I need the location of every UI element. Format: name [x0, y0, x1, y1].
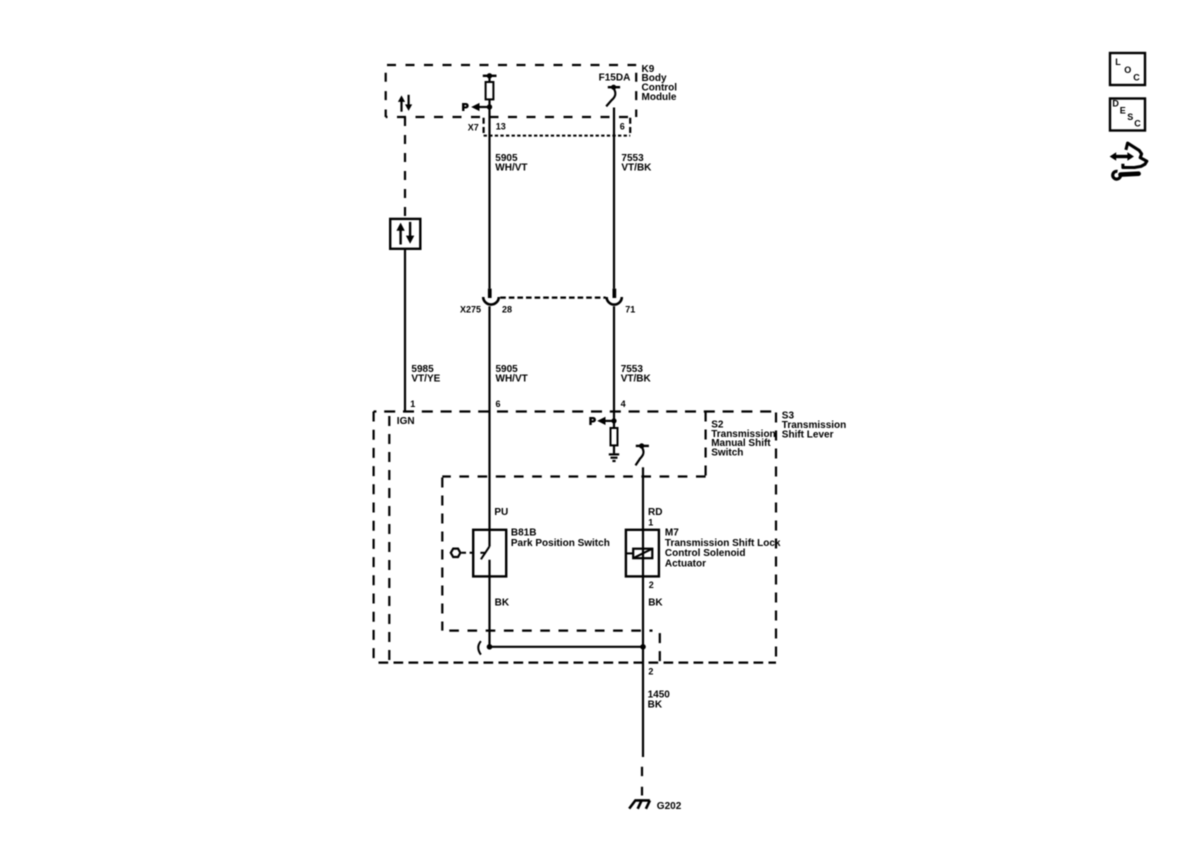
internal supply bar with junction dot (K9)	[483, 73, 497, 82]
resistor inside S2	[611, 421, 618, 454]
wire resistor to junction	[488, 99, 490, 107]
bidirectional serial data arrows inside K9	[398, 95, 412, 112]
label 1450 BK	[648, 689, 671, 710]
M7 solenoid element	[626, 549, 652, 559]
dashed drop from K9 to data link symbol	[404, 117, 406, 219]
M7 Transmission Shift Lock Control Solenoid Actuator box	[626, 530, 659, 577]
B81B Park Position Switch box	[473, 530, 506, 577]
connector X275 left cup	[483, 297, 499, 305]
svg-text:L: L	[1115, 57, 1121, 67]
svg-text:1: 1	[648, 518, 653, 528]
svg-text:VT/YE: VT/YE	[411, 373, 440, 384]
connector X275 right cup	[607, 297, 622, 305]
junction node pin4 (S2)	[611, 418, 616, 423]
svg-text:71: 71	[625, 304, 635, 314]
svg-text:P: P	[589, 416, 596, 427]
wire RD switch to M7	[642, 467, 644, 530]
svg-text:WH/VT: WH/VT	[495, 162, 527, 173]
svg-text:S: S	[1127, 112, 1133, 122]
svg-text:Shift Lever: Shift Lever	[782, 429, 834, 440]
svg-text:G202: G202	[657, 801, 682, 812]
shift lever switch contact (S2)	[636, 443, 649, 465]
svg-text:C: C	[1133, 72, 1140, 82]
svg-text:6: 6	[496, 399, 501, 409]
label 5905 WH/VT	[496, 364, 528, 384]
svg-text:Switch: Switch	[711, 447, 743, 458]
connector X275 right terminal pin	[613, 289, 617, 298]
DESC icon box	[1110, 98, 1145, 130]
splice wire to ground path	[478, 641, 646, 655]
wire through M7	[642, 530, 644, 647]
ground symbol inside S2	[609, 454, 619, 461]
label 7553 VT/BK upper	[621, 153, 652, 173]
ground G202 symbol	[629, 800, 650, 808]
label 7553 VT/BK	[621, 364, 652, 384]
svg-text:D: D	[1112, 98, 1119, 108]
B81B label	[511, 528, 610, 549]
svg-text:RD: RD	[648, 507, 662, 518]
connector X7 dashed bars	[484, 118, 631, 134]
svg-text:X7: X7	[468, 122, 479, 132]
svg-text:BK: BK	[648, 597, 663, 608]
svg-text:6: 6	[620, 122, 625, 132]
B81B switch blade	[480, 547, 489, 560]
fuse F15DA symbol	[606, 85, 620, 107]
svg-text:4: 4	[621, 399, 626, 409]
svg-text:WH/VT: WH/VT	[496, 373, 528, 384]
svg-text:28: 28	[502, 304, 512, 314]
S3 Transmission Shift Lever outer box	[374, 412, 776, 663]
connector X275 left terminal pin	[488, 289, 492, 298]
dashed wire to ground G202	[641, 767, 643, 796]
svg-text:BK: BK	[648, 700, 663, 711]
svg-text:VT/BK: VT/BK	[621, 373, 652, 384]
svg-text:P: P	[462, 102, 469, 113]
svg-text:C: C	[1134, 119, 1141, 129]
svg-text:Actuator: Actuator	[665, 558, 706, 569]
svg-text:VT/BK: VT/BK	[621, 162, 652, 173]
M7 label	[665, 528, 781, 570]
wire 5905 lower segment	[488, 306, 490, 546]
connector X7 dotted line	[484, 135, 631, 137]
S2 Transmission Manual Shift Switch box edges	[389, 412, 705, 663]
K9 label	[642, 64, 678, 103]
serial data symbol box with arrows	[390, 219, 420, 249]
svg-text:Park Position Switch: Park Position Switch	[511, 538, 610, 549]
svg-text:X275: X275	[460, 304, 481, 314]
svg-text:2: 2	[648, 667, 653, 677]
label 5985 VT/YE	[411, 364, 440, 384]
svg-text:13: 13	[496, 122, 506, 132]
mechanical link hexagon	[451, 549, 461, 557]
S2 label	[711, 419, 775, 458]
svg-text:O: O	[1124, 65, 1131, 75]
wire 5905 upper segment	[488, 107, 490, 289]
internal pull-up resistor (K9)	[486, 82, 494, 99]
label 5905 WH/VT upper	[495, 153, 527, 173]
svg-text:1: 1	[410, 399, 415, 409]
svg-text:IGN: IGN	[397, 416, 415, 427]
K9 Body Control Module box	[386, 65, 637, 117]
connector X275 dashed tie line	[500, 297, 606, 299]
S3 label	[782, 411, 846, 441]
svg-text:PU: PU	[494, 507, 508, 518]
node P arrow (K9)	[462, 102, 492, 113]
svg-text:BK: BK	[495, 597, 510, 608]
wire 7553 upper segment	[613, 108, 615, 289]
inner assembly box (B81B / M7) edges	[442, 477, 660, 663]
svg-text:F15DA: F15DA	[599, 72, 631, 83]
svg-text:E: E	[1120, 105, 1126, 115]
diagnostic tool icon	[1110, 143, 1147, 179]
wire 7553 lower segment	[613, 306, 615, 421]
wire 5985 segment	[404, 249, 406, 412]
node P arrow (S2)	[589, 416, 614, 427]
LOC icon box	[1110, 53, 1145, 85]
wire 1450 BK	[642, 647, 644, 757]
B81B lower contact wire	[488, 560, 490, 647]
svg-text:Module: Module	[642, 92, 677, 103]
svg-text:2: 2	[649, 580, 654, 590]
mechanical link dashes	[461, 552, 477, 554]
